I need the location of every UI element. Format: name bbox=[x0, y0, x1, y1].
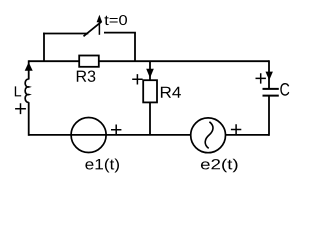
switch branch: right vertical wire bbox=[134, 33, 136, 62]
label e1(t) bbox=[85, 159, 119, 173]
capacitor C top plate bbox=[263, 88, 279, 90]
plus sign near R4 bbox=[132, 74, 142, 84]
capacitor C bottom plate bbox=[263, 95, 279, 97]
wire: main top wire (node between L, R3 net, R4, C) bbox=[29, 60, 269, 62]
plus sign near e2 bbox=[231, 124, 241, 134]
source e1(t) circle (wire passes through) bbox=[71, 118, 106, 153]
label t=0 bbox=[105, 15, 128, 25]
switch actuation arrow stem bbox=[98, 21, 100, 35]
label e2(t) bbox=[201, 159, 238, 173]
wire: left vertical lower segment bbox=[28, 102, 30, 136]
current arrow on R4 branch (down) bbox=[146, 69, 154, 78]
label C bbox=[280, 83, 289, 96]
switch actuation arrow head bbox=[97, 15, 103, 22]
wire: right vertical (C branch) upper segment bbox=[268, 60, 270, 88]
wire: right vertical lower segment bbox=[268, 96, 270, 136]
label R3 bbox=[77, 71, 96, 82]
wire: main bottom wire bbox=[29, 134, 269, 136]
current arrow on C branch (down) bbox=[266, 72, 273, 81]
wire: middle vertical lower segment bbox=[149, 102, 151, 134]
switch blade (t=0 switch) bbox=[84, 22, 102, 37]
plus sign near L bbox=[15, 103, 26, 114]
wire: left vertical (inductor branch) upper segment bbox=[28, 60, 30, 79]
switch branch: right horizontal wire bbox=[104, 32, 136, 34]
resistor R3 (box) bbox=[79, 56, 99, 67]
inductor L coil bbox=[25, 79, 29, 102]
plus sign near e1 bbox=[111, 125, 121, 135]
plus sign near C bbox=[256, 73, 266, 83]
label R4 bbox=[161, 87, 181, 98]
wire: middle vertical (R4 branch) upper segment bbox=[149, 61, 151, 80]
source e2(t) circle bbox=[191, 118, 226, 153]
switch branch: left horizontal wire bbox=[43, 33, 88, 35]
current arrow on inductor branch (up) bbox=[25, 62, 33, 71]
resistor R4 (box) bbox=[143, 80, 157, 102]
sine squiggle inside e2 bbox=[205, 122, 213, 149]
switch branch: left vertical wire bbox=[43, 33, 45, 62]
label L bbox=[15, 86, 21, 96]
